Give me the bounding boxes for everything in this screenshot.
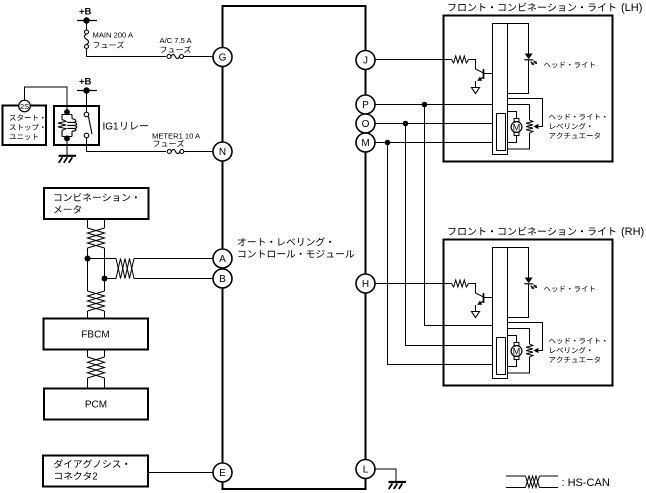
- svg-text:A: A: [219, 254, 226, 265]
- svg-text:A/C 7.5 A: A/C 7.5 A: [160, 36, 193, 45]
- svg-text:M: M: [513, 346, 521, 356]
- svg-text:E: E: [219, 468, 226, 479]
- svg-text:FBCM: FBCM: [81, 330, 109, 341]
- svg-text:+B: +B: [79, 7, 92, 18]
- svg-text:IG1: IG1: [103, 122, 120, 133]
- svg-text:PCM: PCM: [85, 400, 107, 411]
- svg-text:2S: 2S: [20, 102, 29, 111]
- svg-text:(LH): (LH): [621, 2, 642, 14]
- svg-text:M: M: [361, 138, 369, 149]
- svg-text:(RH): (RH): [621, 226, 644, 238]
- svg-text:M: M: [513, 122, 521, 132]
- svg-text:2: 2: [92, 472, 97, 483]
- svg-text:O: O: [362, 119, 370, 130]
- svg-text:MAIN 200 A: MAIN 200 A: [93, 31, 134, 40]
- svg-text:B: B: [219, 274, 226, 285]
- svg-text:: HS-CAN: : HS-CAN: [562, 477, 610, 489]
- svg-text:H: H: [362, 279, 369, 290]
- svg-text:METER1 10 A: METER1 10 A: [152, 132, 201, 141]
- svg-text:P: P: [362, 100, 369, 111]
- svg-text:G: G: [219, 53, 227, 64]
- svg-text:N: N: [219, 147, 226, 158]
- svg-text:L: L: [363, 465, 369, 476]
- svg-text:J: J: [363, 56, 368, 67]
- svg-text:+B: +B: [79, 77, 92, 88]
